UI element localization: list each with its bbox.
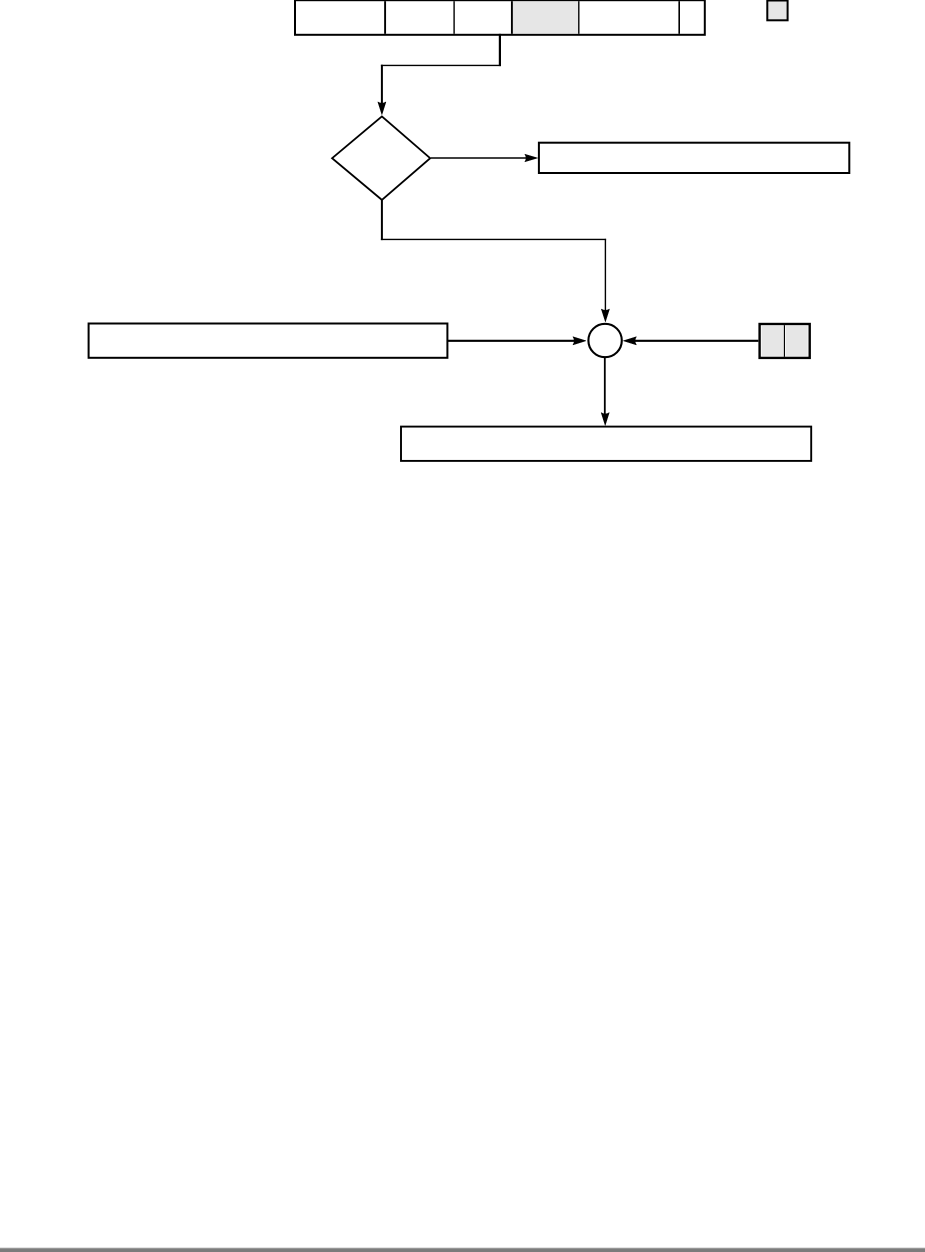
- two-cell shaded box (right): [760, 324, 810, 358]
- adder / join circle: [588, 324, 621, 357]
- fault handler box (right of diamond): [539, 143, 849, 173]
- connector: horizontal jog right: [381, 238, 606, 240]
- footer rule bar: [0, 1248, 925, 1252]
- connector: vertical drop to decision diamond: [381, 65, 383, 105]
- arrow shaft: two-cell box to adder circle: [635, 340, 759, 342]
- connector: diamond bottom drop: [381, 200, 383, 240]
- arrowhead into diamond top: [378, 102, 386, 115]
- arrowhead into circle right: [623, 337, 636, 345]
- field divider 3: [511, 1, 513, 34]
- connector: vertical drop to adder circle: [604, 239, 606, 311]
- arrow shaft: adder circle down to result box: [604, 358, 606, 415]
- field divider 1: [384, 1, 386, 34]
- arrowhead into fault box: [525, 154, 538, 162]
- connector: horizontal jog left: [381, 64, 501, 66]
- connector: register bar down from bit field: [499, 34, 501, 66]
- shaded fill left cell: [762, 326, 784, 356]
- result box (bottom): [401, 427, 811, 461]
- decision diamond: [332, 116, 430, 199]
- field divider 2: [453, 1, 455, 34]
- arrowhead into circle left: [573, 337, 586, 345]
- footer rule highlight: [0, 1248, 925, 1249]
- small shaded legend square (top right, top edge clipped): [767, 1, 787, 21]
- field divider 5: [678, 1, 680, 34]
- shaded field cell of register bar: [513, 1, 578, 33]
- divider of two-cell box: [783, 325, 785, 357]
- arrowhead into result box: [601, 413, 609, 426]
- shaded fill right cell: [786, 326, 808, 356]
- arrow shaft: diamond right to fault box: [431, 157, 526, 159]
- virtual address register bar (segmented, top edge clipped): [295, 0, 705, 35]
- page table base box (left): [89, 324, 448, 358]
- arrow shaft: left box to adder circle: [448, 340, 575, 342]
- arrowhead into circle top: [601, 309, 609, 322]
- field divider 4: [578, 1, 580, 34]
